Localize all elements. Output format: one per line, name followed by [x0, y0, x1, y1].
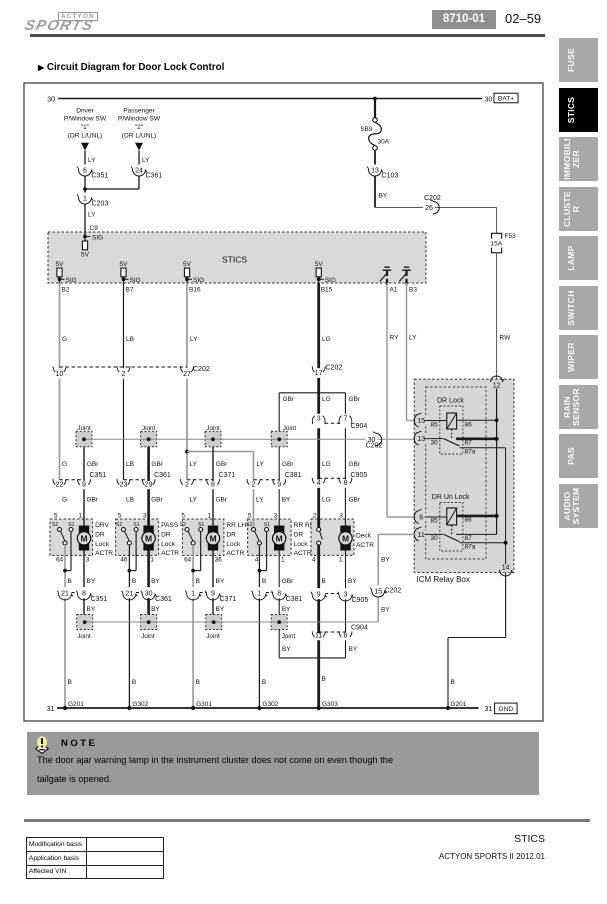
svg-text:ACTR: ACTR [356, 542, 374, 549]
svg-text:Joint: Joint [283, 425, 297, 432]
svg-text:15: 15 [417, 418, 425, 425]
wire BY: motor to C361-30 to joint row 2 [147, 551, 150, 615]
joint J5 (lower row) [77, 615, 93, 630]
svg-text:6: 6 [83, 168, 87, 175]
svg-text:BY: BY [151, 606, 160, 613]
svg-text:Joint: Joint [206, 633, 220, 640]
svg-text:M: M [80, 533, 87, 543]
wire BY: pin 11 left and down to C202-15 to joint bus 2 [378, 533, 415, 535]
svg-text:1: 1 [281, 556, 285, 563]
svg-text:4: 4 [312, 556, 316, 563]
svg-text:C351: C351 [92, 173, 109, 180]
svg-text:DRV: DRV [95, 522, 109, 529]
svg-text:PASS: PASS [161, 522, 179, 529]
wire: 87a bus down [505, 448, 507, 543]
svg-text:BY: BY [282, 646, 291, 653]
header rule [30, 34, 545, 37]
svg-text:4: 4 [255, 556, 259, 563]
svg-text:1: 1 [207, 512, 211, 519]
svg-text:2: 2 [313, 512, 317, 519]
connector row C361 pins 23/29 [124, 479, 149, 481]
fuse F53 15A [492, 233, 502, 238]
node joint dot at 279.2 [277, 437, 281, 441]
svg-text:3: 3 [86, 556, 90, 563]
node joint dot at 148.6 [147, 437, 151, 441]
svg-text:B: B [322, 676, 326, 683]
svg-text:C361: C361 [146, 173, 163, 180]
section code box 8710-01 [432, 10, 496, 29]
svg-text:64: 64 [184, 556, 192, 563]
svg-text:B: B [262, 578, 266, 585]
connector C103 pin 13 [370, 165, 380, 176]
svg-text:5: 5 [118, 512, 122, 519]
svg-text:ACTR: ACTR [161, 550, 179, 557]
svg-text:C905: C905 [351, 472, 368, 479]
svg-text:STICS: STICS [222, 255, 247, 265]
node joint2 dot at 213.7 [212, 620, 216, 624]
svg-text:M: M [209, 533, 216, 543]
svg-text:C202: C202 [366, 443, 383, 450]
wire LY branch: over and down to C381-2 [187, 451, 254, 453]
svg-text:B: B [451, 679, 455, 686]
svg-text:2: 2 [185, 482, 189, 489]
svg-text:DR: DR [226, 531, 236, 538]
door lock actuator box RR LH DR Lock ACTR [182, 519, 224, 555]
svg-text:B7: B7 [126, 287, 134, 294]
wire LG: B15 to C202-17 down to deck [317, 283, 320, 528]
svg-text:G303: G303 [322, 701, 338, 708]
joint J1 (upper row) [76, 431, 92, 447]
ICM relay module inner box [426, 387, 486, 559]
node: coil86/bus [495, 418, 499, 422]
wire: pin 11 to switch common [425, 533, 444, 535]
svg-text:C361: C361 [155, 596, 172, 603]
sidebar tab AUDIO / SYSTEM [559, 484, 598, 528]
svg-text:B: B [196, 679, 200, 686]
connector row C905 pins 9/3 [319, 593, 346, 595]
svg-text:LY: LY [88, 157, 96, 164]
svg-text:Joint: Joint [77, 633, 91, 640]
svg-text:GBr: GBr [282, 461, 294, 468]
node joint2 dot at 279.2 [277, 620, 281, 624]
svg-text:GBr: GBr [216, 497, 228, 504]
svg-text:8: 8 [82, 591, 86, 598]
connector C202 pin 30 [366, 435, 378, 443]
svg-text:G302: G302 [132, 701, 148, 708]
svg-text:C371: C371 [220, 596, 237, 603]
node: 87a join [504, 541, 508, 545]
svg-text:Joint: Joint [142, 425, 156, 432]
wire GBr: joint to C361-29 to motor [147, 447, 150, 526]
sidebar tab PAS [559, 434, 598, 478]
ICM pin 14 [505, 543, 507, 573]
DR Lock relay outline [440, 406, 463, 454]
svg-text:13: 13 [417, 436, 425, 443]
ICM pin 13 [417, 435, 427, 443]
DR Lock relay switch lever [444, 439, 460, 446]
svg-text:C202: C202 [193, 366, 210, 373]
svg-text:Joint: Joint [206, 425, 220, 432]
svg-text:Deck: Deck [356, 533, 372, 540]
svg-text:12: 12 [493, 382, 501, 389]
svg-text:F53: F53 [505, 233, 517, 240]
svg-text:Lock: Lock [161, 541, 176, 548]
svg-text:2: 2 [122, 371, 126, 378]
svg-text:LY: LY [88, 212, 96, 219]
svg-text:LB: LB [126, 336, 134, 343]
wire GBr bypass: joint J4 up / across / down to C904-7 [278, 393, 280, 432]
actuator motor (C361) [143, 526, 153, 551]
joint J4 (upper row) [271, 431, 287, 447]
door lock actuator box DRV DR Lock ACTR [50, 519, 93, 555]
svg-text:"1": "1" [81, 124, 90, 131]
node joint dot at 84 [82, 437, 86, 441]
svg-text:C904: C904 [351, 625, 368, 632]
svg-text:BY: BY [379, 193, 388, 200]
svg-text:DR Lock: DR Lock [437, 398, 464, 405]
Driver switch terminal triangle [81, 143, 89, 151]
svg-text:"2": "2" [135, 124, 144, 131]
wire: pin 13 to switch common [425, 438, 444, 440]
ground bus 31 [57, 707, 479, 709]
svg-text:4: 4 [317, 480, 321, 487]
DR Un Lock relay switch lever [444, 534, 460, 541]
svg-text:B: B [68, 679, 72, 686]
svg-text:A1: A1 [390, 287, 398, 294]
svg-text:24: 24 [135, 168, 143, 175]
svg-text:GBr: GBr [349, 396, 361, 403]
svg-text:C202: C202 [326, 365, 343, 372]
connector C202 pin 15 [373, 586, 383, 597]
STICS control unit box [48, 232, 426, 283]
svg-text:9: 9 [317, 592, 321, 599]
sidebar tab LAMP [559, 236, 598, 280]
footer rule [24, 819, 590, 822]
svg-text:B: B [196, 578, 200, 585]
svg-text:86: 86 [465, 517, 473, 524]
svg-text:S2: S2 [246, 522, 252, 528]
connector row C351 pins 22/9 [60, 479, 85, 481]
svg-text:9: 9 [211, 591, 215, 598]
svg-text:LY: LY [190, 497, 198, 504]
svg-text:BY: BY [151, 578, 160, 585]
svg-text:3: 3 [317, 416, 321, 423]
svg-text:1: 1 [257, 591, 261, 598]
svg-text:LY: LY [190, 461, 198, 468]
connector row C371 pins 2/8 [187, 479, 213, 481]
svg-text:LY: LY [142, 157, 150, 164]
svg-text:B: B [68, 578, 72, 585]
wire: C202 to fuse F53 [496, 208, 498, 234]
svg-text:Lock: Lock [294, 541, 309, 548]
connector row C381 pins 2/9 [254, 479, 280, 481]
svg-text:SIG: SIG [130, 277, 141, 284]
wire BY: C904-8 down/left/up to joint J8 [345, 637, 347, 658]
svg-text:S2: S2 [180, 522, 186, 528]
svg-text:8: 8 [343, 480, 347, 487]
svg-text:LG: LG [322, 461, 331, 468]
sidebar tab WIPER [559, 335, 598, 379]
svg-text:B15: B15 [321, 287, 333, 294]
STICS input pin C9 (SIG, 5V pull) [83, 235, 87, 239]
svg-text:RR LH: RR LH [226, 522, 246, 529]
connector row C361 pins 21/30 [129, 592, 148, 594]
svg-text:G: G [62, 497, 67, 504]
svg-text:C9: C9 [90, 225, 99, 232]
svg-text:5V: 5V [183, 261, 192, 268]
node joint2 dot at 148.6 [147, 620, 151, 624]
svg-text:(DR L/UNL): (DR L/UNL) [68, 132, 102, 139]
svg-text:C202: C202 [385, 588, 402, 595]
svg-text:LG: LG [322, 336, 331, 343]
actuator motor (C381) [274, 526, 284, 551]
node: right ground [446, 706, 450, 710]
wire 87: thick to bus [456, 437, 497, 440]
wire GBr: joint to C371-8 to motor [212, 447, 214, 526]
svg-text:11: 11 [418, 532, 425, 539]
svg-text:DR: DR [294, 531, 304, 538]
actuator motor (C351) [79, 526, 89, 551]
connector row C351 pins 21/8 [65, 592, 84, 594]
svg-text:2: 2 [252, 482, 256, 489]
STICS door-ajar switch pin B3 [404, 266, 409, 268]
svg-text:30: 30 [47, 97, 55, 104]
svg-text:B: B [262, 679, 266, 686]
svg-text:15: 15 [374, 589, 382, 596]
svg-text:DR: DR [95, 531, 105, 538]
svg-text:SB9: SB9 [360, 126, 373, 133]
svg-text:ACTR: ACTR [294, 550, 312, 557]
connector row C381 pins 1/8 [259, 592, 279, 594]
svg-text:(DR L/UNL): (DR L/UNL) [122, 132, 156, 139]
node: LY branch to RR RH [185, 450, 189, 454]
svg-text:LG: LG [322, 497, 331, 504]
wire: DR Un Lock coil 86 thick to bus [457, 515, 497, 518]
wire B: pin 14 to ground G201 [505, 573, 507, 638]
svg-text:BY: BY [216, 578, 225, 585]
svg-text:8: 8 [211, 482, 215, 489]
svg-text:GND: GND [498, 706, 513, 713]
svg-text:29: 29 [145, 482, 153, 489]
sidebar tab CLUSTE / R [559, 187, 598, 231]
svg-text:5: 5 [248, 512, 252, 519]
svg-text:BY: BY [282, 497, 291, 504]
node: unlock coil 86/bus [495, 514, 499, 518]
revision table [26, 837, 164, 879]
svg-text:5V: 5V [56, 261, 65, 268]
svg-text:31: 31 [485, 706, 493, 713]
wire BY: motor to C371-9 to joint row 2 [212, 551, 214, 615]
svg-text:46: 46 [120, 556, 128, 563]
svg-text:C351: C351 [90, 472, 107, 479]
svg-text:3: 3 [274, 512, 278, 519]
svg-text:3: 3 [344, 592, 348, 599]
node: driver/passenger join [83, 187, 87, 191]
svg-text:64: 64 [56, 556, 64, 563]
svg-text:BY: BY [282, 606, 291, 613]
joint J3 (upper row) [205, 431, 221, 447]
svg-text:LB: LB [126, 461, 134, 468]
svg-text:85: 85 [431, 518, 439, 525]
svg-text:30A: 30A [378, 139, 390, 146]
svg-text:LG: LG [322, 396, 331, 403]
svg-text:15A: 15A [491, 241, 503, 248]
svg-text:Lock: Lock [226, 541, 241, 548]
svg-text:P/Window SW: P/Window SW [118, 116, 161, 123]
svg-text:1: 1 [78, 512, 82, 519]
svg-text:DR: DR [161, 531, 171, 538]
svg-text:87a: 87a [465, 448, 476, 455]
svg-text:RW: RW [500, 335, 512, 342]
wire RY: A1 to DR Un Lock coil 85 (pin 6) [386, 283, 388, 517]
wire GBr: joint to C381-9 to motor [278, 447, 280, 526]
svg-text:5V: 5V [315, 261, 324, 268]
sidebar tab RAIN / SENSOR [559, 385, 598, 429]
svg-text:C905: C905 [352, 597, 369, 604]
svg-text:LY: LY [256, 497, 264, 504]
svg-text:22: 22 [56, 482, 64, 489]
wire BY: motor to C381-8 to joint row 2 [278, 551, 280, 615]
svg-text:10: 10 [56, 371, 64, 378]
wire B: deck pin 4 to ground G303 [317, 545, 320, 708]
svg-text:9: 9 [82, 482, 86, 489]
deck actuator switch [317, 528, 321, 532]
svg-text:RY: RY [390, 335, 400, 342]
wire: pin 15 to coil 85 [425, 420, 447, 422]
svg-text:GBr: GBr [151, 497, 163, 504]
svg-text:G: G [62, 461, 67, 468]
fusible link SB9 30A [374, 100, 376, 118]
connector row C371 pins 1/9 [193, 592, 213, 594]
joint J6 (lower row) [141, 615, 157, 630]
svg-text:SIG: SIG [66, 277, 77, 284]
wire B: S2/S1 merge to ground G302 [128, 545, 130, 708]
ICM Relay Box outline [414, 379, 514, 572]
svg-text:BY: BY [349, 646, 358, 653]
svg-text:30: 30 [431, 535, 439, 542]
svg-text:13: 13 [371, 168, 379, 175]
wire BY: deck motor pin 1 to C905-3 to C904-8 [345, 551, 347, 633]
svg-text:G201: G201 [451, 701, 467, 708]
wire: junction to STICS C9 input [84, 189, 86, 237]
svg-text:G: G [62, 336, 67, 343]
svg-text:B: B [322, 578, 326, 585]
svg-text:5: 5 [54, 512, 58, 519]
ICM pin 6 [417, 513, 427, 521]
svg-text:11: 11 [315, 633, 322, 640]
svg-text:LY: LY [190, 336, 198, 343]
svg-text:G302: G302 [262, 701, 278, 708]
wire 87a: to right bus [460, 447, 506, 449]
svg-text:B: B [132, 578, 136, 585]
svg-text:26: 26 [425, 205, 433, 212]
svg-text:GBr: GBr [151, 461, 163, 468]
wire B: S2/S1 merge to ground G301 [192, 545, 194, 708]
svg-text:C351: C351 [91, 596, 108, 603]
NOTE box [27, 732, 539, 795]
sidebar tab IMMOBILI / ZER [559, 137, 598, 181]
joint J8 (lower row) [271, 615, 287, 630]
svg-text:C371: C371 [219, 472, 236, 479]
svg-text:17: 17 [315, 370, 323, 377]
svg-text:1: 1 [339, 556, 343, 563]
svg-text:C203: C203 [92, 201, 109, 208]
connector row C202 pins 10/2/27 [60, 366, 188, 368]
svg-text:3: 3 [339, 512, 343, 519]
svg-text:ACTR: ACTR [95, 550, 113, 557]
joint J2 (upper row) [141, 431, 157, 447]
svg-text:BY: BY [87, 606, 96, 613]
connector C351 pin 6 [80, 165, 90, 176]
DR Un Lock relay outline [440, 503, 463, 552]
BAT+ terminal box [494, 93, 518, 103]
svg-text:LB: LB [126, 497, 134, 504]
node: 87/bus [495, 437, 499, 441]
node joint dot at 213 [211, 437, 215, 441]
Deck ACTR box [311, 519, 354, 555]
sidebar tab SWITCH [559, 286, 598, 330]
svg-text:M: M [276, 533, 283, 543]
svg-text:P/Window SW: P/Window SW [64, 116, 107, 123]
svg-text:1: 1 [191, 591, 195, 598]
svg-text:GBr: GBr [87, 497, 99, 504]
node joint2 dot at 84.7 [83, 620, 87, 624]
DR Lock relay coil [447, 413, 457, 429]
svg-text:BAT+: BAT+ [498, 96, 514, 103]
connector C202 pin 17 (deck feed) [314, 368, 324, 378]
svg-text:23: 23 [120, 482, 128, 489]
wire 87a: to right bus [460, 542, 506, 544]
diagram frame [24, 83, 543, 721]
joint J7 (lower row) [206, 615, 222, 630]
svg-text:8: 8 [277, 591, 281, 598]
connector row C905 pins 4/8 [319, 477, 346, 479]
svg-text:9: 9 [277, 482, 281, 489]
svg-text:LY: LY [257, 461, 265, 468]
wire B: S2/S1 merge to ground G201 [64, 545, 66, 708]
svg-text:B: B [132, 679, 136, 686]
section title [38, 62, 224, 73]
svg-text:3: 3 [143, 512, 147, 519]
svg-text:Joint: Joint [77, 425, 91, 432]
ICM pin 12 [492, 380, 502, 388]
svg-text:21: 21 [126, 591, 134, 598]
svg-text:21: 21 [61, 591, 69, 598]
connector row C904 pins 11/8 [319, 631, 346, 633]
svg-text:5V: 5V [81, 252, 90, 259]
connector C361 pin 24 [134, 165, 144, 176]
svg-text:7: 7 [343, 416, 347, 423]
door lock actuator box PASS DR Lock ACTR [116, 519, 159, 555]
svg-text:C904: C904 [351, 423, 368, 430]
wire: DR Lock coil 86 to bus [457, 419, 497, 421]
wire LY: passenger sw to C361, across to driver wire [138, 151, 140, 190]
wire G: B2 to C202-10 to C351-22 [59, 283, 61, 367]
svg-text:Joint: Joint [282, 633, 296, 640]
svg-text:85: 85 [431, 422, 439, 429]
svg-text:B3: B3 [409, 287, 417, 294]
GND terminal box [495, 703, 517, 714]
svg-text:14: 14 [502, 564, 510, 571]
svg-text:C202: C202 [424, 195, 441, 202]
svg-text:SIG: SIG [193, 277, 204, 284]
sidebar tab FUSE [559, 38, 598, 82]
wire RW: F53 to ICM pin 12 [496, 253, 498, 381]
svg-text:87: 87 [465, 535, 473, 542]
svg-text:S2: S2 [52, 522, 58, 528]
svg-text:5V: 5V [120, 261, 129, 268]
svg-text:27: 27 [183, 371, 191, 378]
